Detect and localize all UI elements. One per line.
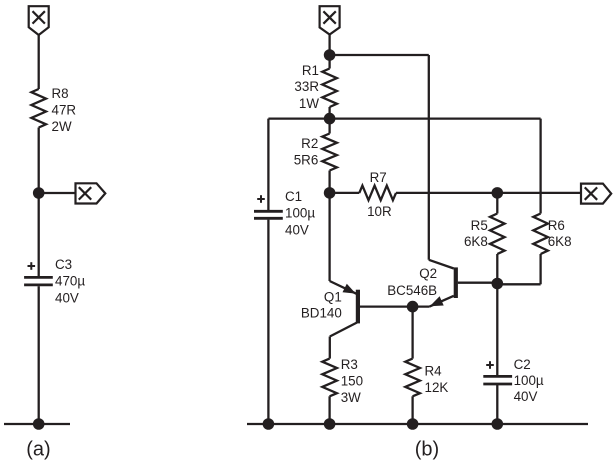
- wire node2 rail left to C1: [268, 117, 329, 119]
- wire C1 to rail: [267, 220, 269, 424]
- wire R8 to node: [38, 128, 40, 194]
- resistor R5: [490, 214, 505, 255]
- svg-text:BD140: BD140: [301, 305, 342, 320]
- node 3 junction: [324, 187, 336, 199]
- label C2 values: [514, 357, 544, 404]
- wire connector to R8: [38, 35, 40, 89]
- svg-text:C3: C3: [55, 257, 72, 272]
- capacitor C1: [254, 211, 283, 218]
- label Q1: [301, 290, 342, 321]
- svg-text:R3: R3: [341, 357, 358, 372]
- node 6 junction: [492, 278, 504, 290]
- wire R3 to rail: [328, 396, 330, 424]
- wire node2 rail right to R6: [330, 117, 541, 119]
- label Q2: [387, 266, 437, 298]
- ground rail (b): [247, 423, 588, 425]
- svg-text:R4: R4: [425, 364, 443, 379]
- label R6 values: [548, 218, 572, 249]
- resistor R7: [359, 186, 396, 201]
- resistor R6: [533, 214, 548, 255]
- wire connector to node 1: [328, 35, 330, 69]
- svg-text:2W: 2W: [52, 119, 72, 134]
- svg-text:(b): (b): [415, 439, 439, 461]
- connector X right (b): [581, 184, 611, 204]
- wire R4 to rail: [411, 396, 413, 424]
- label R4 values: [425, 364, 449, 395]
- rail junction R4: [407, 418, 419, 430]
- wire Q1 base: [360, 305, 413, 307]
- wire Q1 emitter diagonal: [330, 281, 357, 294]
- svg-text:Q2: Q2: [419, 266, 437, 281]
- wire R6 top: [539, 119, 541, 214]
- wire R5 bottom: [496, 254, 498, 284]
- wire node to C3: [38, 193, 40, 277]
- svg-text:R6: R6: [548, 218, 565, 233]
- caption (b): [415, 439, 439, 461]
- label R5 values: [464, 218, 488, 249]
- transistor Q2 emitter arrow: [430, 296, 444, 306]
- wire node3 to R7: [330, 192, 360, 194]
- ground rail (a): [4, 423, 70, 425]
- node junction (a): [33, 187, 45, 199]
- label R1 values: [294, 63, 319, 111]
- svg-text:100µ: 100µ: [514, 373, 544, 388]
- wire Q2 collector column: [428, 55, 430, 260]
- label C1 values: [285, 189, 315, 237]
- svg-text:40V: 40V: [285, 222, 309, 237]
- svg-text:R2: R2: [301, 136, 318, 151]
- capacitor C2: [483, 376, 512, 384]
- wire Q2 base: [458, 282, 498, 284]
- svg-text:470µ: 470µ: [55, 274, 85, 289]
- resistor R4: [405, 359, 420, 397]
- transistor Q1 bar: [356, 290, 360, 324]
- resistor R3: [322, 359, 337, 397]
- wire Q1 collector to R3: [329, 337, 331, 359]
- wire R7 to connector right (b): [396, 192, 581, 194]
- label R7: [370, 170, 387, 185]
- svg-text:Q1: Q1: [324, 290, 342, 305]
- resistor R2: [322, 134, 337, 171]
- wire node to connector right (a): [39, 192, 76, 194]
- svg-text:R8: R8: [52, 86, 69, 101]
- wire C3 to rail: [38, 286, 40, 424]
- label R2 values: [294, 136, 319, 168]
- caption (a): [26, 439, 50, 461]
- wire R4 top: [411, 307, 413, 359]
- wire Q2 collector diagonal: [429, 260, 454, 269]
- node 2 junction: [324, 113, 336, 125]
- rail junction C2: [492, 418, 504, 430]
- rail junction C1: [263, 418, 275, 430]
- svg-text:12K: 12K: [425, 380, 449, 395]
- wire R2 to node 3: [328, 171, 330, 193]
- capacitor C2 plus sign: [486, 361, 494, 369]
- wire C1 top: [267, 119, 269, 212]
- label R3 values: [341, 357, 363, 405]
- svg-text:BC546B: BC546B: [387, 283, 437, 298]
- svg-text:R7: R7: [370, 170, 387, 185]
- capacitor C3 plus sign: [28, 262, 36, 270]
- svg-text:40V: 40V: [55, 290, 79, 305]
- label C3 values: [55, 257, 85, 305]
- svg-text:R5: R5: [471, 218, 488, 233]
- wire Q1 collector diagonal: [330, 323, 357, 337]
- svg-text:R1: R1: [302, 63, 319, 78]
- svg-text:5R6: 5R6: [294, 153, 319, 168]
- rail junction R3: [324, 418, 336, 430]
- transistor Q2 bar: [454, 267, 458, 298]
- connector X top (a): [29, 6, 49, 35]
- node 5 junction: [492, 187, 504, 199]
- svg-text:6K8: 6K8: [464, 234, 488, 249]
- label R7 value: [367, 204, 392, 219]
- resistor R1: [322, 69, 337, 108]
- wire node3 to Q1 emitter: [328, 193, 330, 281]
- svg-text:150: 150: [341, 373, 363, 388]
- label R8 values: [52, 86, 77, 134]
- connector X right (a): [76, 183, 106, 203]
- node 4 junction: [407, 301, 419, 313]
- node 1 junction: [324, 49, 336, 61]
- wire R6 bottom: [497, 254, 540, 284]
- svg-text:33R: 33R: [294, 79, 319, 94]
- svg-text:C1: C1: [285, 189, 302, 204]
- wire C2 to rail: [496, 384, 498, 424]
- transistor Q1 emitter arrow: [343, 284, 356, 294]
- svg-text:40V: 40V: [514, 389, 538, 404]
- wire node1 to Q2 collector column: [330, 54, 429, 56]
- svg-text:C2: C2: [514, 357, 531, 372]
- wire R1 to node 2: [328, 107, 330, 134]
- svg-text:1W: 1W: [299, 96, 319, 111]
- connector X top (b): [320, 6, 340, 34]
- capacitor C3: [24, 277, 53, 285]
- capacitor C1 plus sign: [257, 195, 265, 203]
- svg-text:6K8: 6K8: [548, 234, 572, 249]
- resistor R8: [31, 89, 46, 128]
- wire Q2 emitter diagonal: [413, 296, 454, 307]
- svg-text:(a): (a): [26, 439, 50, 461]
- svg-text:100µ: 100µ: [285, 206, 315, 221]
- wire node6 to C2: [496, 284, 498, 377]
- svg-text:10R: 10R: [367, 204, 392, 219]
- svg-text:3W: 3W: [341, 390, 361, 405]
- rail junction (a): [33, 418, 45, 430]
- wire R5 top: [496, 193, 498, 214]
- svg-text:47R: 47R: [52, 102, 77, 117]
